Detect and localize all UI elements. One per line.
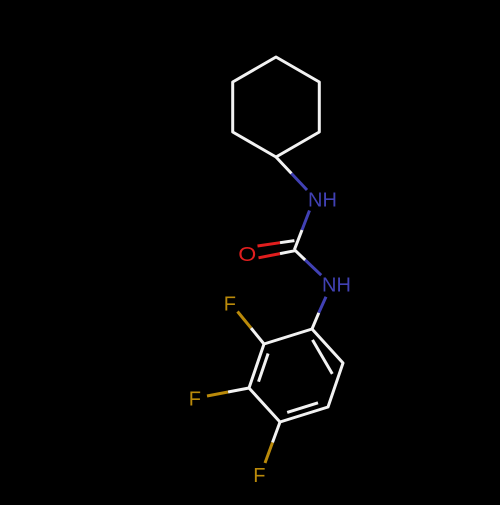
- wire: C4 to F3, fluorine half: [265, 443, 273, 464]
- wire: ring C to N1, nitrogen half: [292, 174, 308, 191]
- aromatic inner line C4=C5: [287, 403, 318, 413]
- wire: C3 to F2, carbon half: [228, 388, 249, 392]
- wire: N2 to aromatic C1, carbon half: [312, 313, 319, 329]
- wire: N2 to aromatic C1, nitrogen half: [319, 297, 326, 313]
- wire: N1 to carbonyl C, nitrogen half: [302, 211, 310, 231]
- wire: C2 to F1, fluorine half: [238, 312, 252, 329]
- svg-text:F: F: [189, 389, 201, 411]
- svg-text:F: F: [224, 294, 236, 316]
- aromatic inner line C2=C3: [259, 354, 269, 382]
- capacitor-like C=O double bond, oxygen halves (red): [258, 243, 281, 246]
- wire: ring C to N1, carbon half: [276, 157, 292, 174]
- wire: N1 to carbonyl C, carbon half: [294, 230, 302, 250]
- svg-text:O: O: [238, 243, 256, 266]
- wire: C2 to F1, carbon half: [251, 328, 264, 344]
- svg-text:F: F: [253, 465, 265, 487]
- aromatic inner line C6=C1: [313, 340, 333, 374]
- benzene ring (bottom): [249, 329, 343, 422]
- wire: carbonyl C to N2, nitrogen half: [305, 260, 321, 275]
- svg-text:NH: NH: [308, 190, 337, 212]
- wire: C3 to F2, fluorine half: [207, 392, 228, 396]
- wire: C4 to F3, carbon half: [273, 422, 281, 443]
- C=O double bond, carbon halves (white): [280, 241, 294, 243]
- cyclohexyl ring (top hexagon): [233, 57, 320, 157]
- wire: carbonyl C to N2, carbon half: [294, 250, 305, 260]
- svg-text:NH: NH: [322, 275, 351, 297]
